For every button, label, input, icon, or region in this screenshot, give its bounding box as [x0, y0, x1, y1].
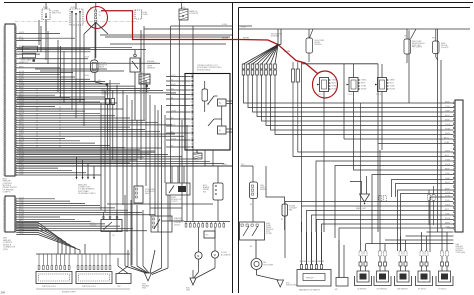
- svg-text:RD/GN: RD/GN: [390, 89, 396, 91]
- wire y166 across: [16, 165, 233, 167]
- svg-text:RD/GN: RD/GN: [19, 229, 24, 231]
- svg-text:RD/GN: RD/GN: [19, 85, 24, 87]
- svg-text:BN/BU: BN/BU: [19, 142, 24, 144]
- svg-text:BN/RD: BN/RD: [171, 84, 177, 86]
- pin rows above ignition boxes: [38, 254, 40, 266]
- svg-text:RD/BU: RD/BU: [445, 133, 450, 135]
- svg-text:BN/BU: BN/BU: [19, 200, 24, 202]
- svg-text:(S16/3): (S16/3): [174, 224, 180, 226]
- red highlight circle on connector: [87, 7, 108, 29]
- component hot film MAF inline (B2/5): [306, 38, 313, 53]
- svg-text:BN/BU: BN/BU: [19, 114, 24, 116]
- wires above shift interlock: [171, 166, 173, 183]
- svg-text:RT KNOCK: RT KNOCK: [418, 289, 427, 291]
- component relay K2 upper: [92, 220, 94, 222]
- component resistor pair: [292, 69, 295, 82]
- highlighted pin column S4/1: [95, 10, 97, 12]
- component M motor 2: [211, 251, 218, 258]
- svg-text:SENSOR: SENSOR: [260, 189, 268, 191]
- svg-text:BU/GY: BU/GY: [445, 115, 450, 117]
- right panel left border: [238, 8, 240, 294]
- component G3/2 fuel level sender: [250, 182, 258, 199]
- svg-text:OF ENGINE COMPT): OF ENGINE COMPT): [78, 193, 96, 195]
- component M motor 1: [195, 252, 202, 259]
- svg-text:FUEL PUMP: FUEL PUMP: [412, 41, 421, 43]
- wire stub into G3/2: [241, 165, 254, 167]
- svg-text:RD/GN: RD/GN: [332, 89, 338, 91]
- svg-text:FUEL PUMP: FUEL PUMP: [264, 264, 274, 266]
- right panel top border: [239, 7, 471, 9]
- component W10 ground top: [179, 9, 188, 20]
- svg-text:BU/GY: BU/GY: [19, 121, 24, 123]
- svg-text:BU/RD: BU/RD: [171, 93, 177, 95]
- svg-text:LEVEL: LEVEL: [260, 187, 265, 189]
- svg-text:BN/BU: BN/BU: [19, 169, 24, 171]
- module internal wires: [221, 106, 223, 126]
- svg-text:CMP SENSOR: CMP SENSOR: [397, 289, 409, 291]
- wires top MAF: [301, 222, 303, 232]
- svg-text:W10: W10: [356, 206, 359, 208]
- module internal switch 1: [208, 96, 214, 104]
- svg-text:SW: SW: [203, 191, 206, 193]
- svg-text:PUMP: PUMP: [143, 14, 149, 16]
- wire G3/2 to relay box: [252, 199, 254, 223]
- svg-text:IAT: IAT: [335, 288, 338, 291]
- module CC/ISC box N4/3: [185, 74, 230, 151]
- svg-text:GY/GN: GY/GN: [19, 126, 24, 128]
- svg-text:W10: W10: [140, 72, 143, 74]
- connector N3/4 section 1 (HFM-SFI control module connector): [5, 24, 15, 176]
- wires A7/3: [217, 166, 219, 183]
- ground W29 arrow: [145, 273, 152, 281]
- harness boundary dashed line 1: [36, 88, 38, 150]
- fan box tails: [243, 75, 245, 79]
- component starter lockout switch: [151, 216, 172, 232]
- svg-text:SENSOR: SENSOR: [147, 68, 156, 70]
- harness boundary dashed line 2: [59, 88, 61, 150]
- component fuse F right: [433, 41, 440, 54]
- red highlight circle injector: [313, 71, 338, 98]
- component W10 rear ground arrow: [360, 194, 370, 202]
- svg-text:YL: YL: [171, 104, 173, 106]
- svg-text:15: 15: [99, 15, 101, 17]
- red highlighted wire RD/GN: [101, 11, 239, 40]
- component relay K (overvoltage protection): [101, 220, 122, 232]
- feed stubs from top border: [45, 3, 47, 10]
- component O2 sensor ground column 1: [360, 240, 362, 251]
- svg-text:RD/BU: RD/BU: [19, 76, 24, 78]
- boxed wire label (GN/RD): [23, 46, 38, 52]
- svg-text:RD/GN: RD/GN: [84, 57, 89, 59]
- svg-text:G3/2: G3/2: [241, 164, 244, 166]
- svg-text:M: M: [214, 254, 216, 257]
- svg-text:RD/BU: RD/BU: [19, 216, 24, 218]
- svg-text:RD/GN: RD/GN: [445, 218, 450, 220]
- wire injector2 vert: [353, 64, 355, 78]
- svg-text:RD/BU: RD/BU: [19, 130, 24, 132]
- svg-text:BN/BU: BN/BU: [445, 168, 450, 170]
- svg-text:BN/BU: BN/BU: [319, 261, 324, 263]
- wires heated oxygen sensor: [266, 166, 285, 204]
- svg-text:K1: K1: [90, 221, 92, 223]
- svg-text:(CONT): (CONT): [266, 233, 272, 235]
- module pin column with arrows: [191, 74, 193, 150]
- svg-text:MODULE (N4/3): MODULE (N4/3): [197, 69, 211, 71]
- svg-text:MODULE: MODULE: [90, 225, 96, 227]
- svg-text:BU/GY: BU/GY: [19, 149, 24, 151]
- wire bundle 1 extras: [344, 138, 453, 140]
- component fuel injector Y62y1 (highlighted): [320, 78, 329, 92]
- ground W29 wires converge: [124, 195, 126, 266]
- svg-text:GY/RD: GY/RD: [171, 138, 177, 140]
- component K40 relay module right: [404, 39, 411, 54]
- ground W12 arrow: [277, 280, 284, 287]
- svg-text:COMPT): COMPT): [3, 191, 11, 193]
- vertical wires mid right: [408, 30, 410, 103]
- component Y1 capsule valve: [91, 60, 99, 73]
- svg-text:BK/YL: BK/YL: [19, 37, 24, 39]
- node square S62: [106, 83, 108, 85]
- connector ECM strip right edge: [455, 100, 463, 232]
- svg-text:CONN (X35): CONN (X35): [456, 252, 466, 254]
- svg-text:RD/BU: RD/BU: [445, 200, 450, 202]
- red wire right panel: [239, 40, 318, 74]
- svg-text:IGNITION COILS: IGNITION COILS: [42, 286, 57, 288]
- module shift interlock box: [166, 183, 190, 195]
- svg-text:GN/RD: GN/RD: [24, 49, 31, 51]
- svg-text:VALVE: VALVE: [145, 192, 151, 195]
- svg-text:GN/YL: GN/YL: [171, 75, 176, 77]
- svg-text:FUEL: FUEL: [260, 185, 264, 187]
- module internal box A1: [218, 99, 227, 106]
- component W10 engine ground (below module): [193, 153, 202, 159]
- svg-text:ELECTRO-: ELECTRO-: [99, 63, 108, 65]
- svg-text:BK/YL: BK/YL: [445, 155, 450, 157]
- long wire col1: [360, 103, 362, 240]
- svg-text:BU/GY: BU/GY: [445, 182, 450, 184]
- component ground column 2: [379, 150, 381, 251]
- svg-text:RD/GN: RD/GN: [361, 89, 367, 91]
- svg-text:FRT COMPT): FRT COMPT): [412, 47, 423, 49]
- fan drop wires turning right to ECM strip: [244, 79, 454, 103]
- CO adjustment connector arrows: [76, 157, 78, 177]
- svg-text:(TRUNK GND): (TRUNK GND): [286, 285, 297, 287]
- svg-text:GY/GN: GY/GN: [445, 124, 450, 126]
- svg-text:294: 294: [1, 291, 6, 295]
- svg-text:BK/YL: BK/YL: [19, 135, 24, 137]
- svg-text:BU/GY: BU/GY: [19, 94, 24, 96]
- svg-text:RD/GN: RD/GN: [19, 167, 24, 169]
- vertical wire trunks left panel: [38, 20, 40, 45]
- svg-text:GN/RD: GN/RD: [390, 80, 396, 82]
- wire pump to ground: [256, 270, 258, 276]
- svg-text:M: M: [197, 255, 199, 258]
- component B4 pressure sensor: [134, 186, 143, 203]
- svg-text:K-GN: K-GN: [222, 24, 227, 26]
- svg-text:W12: W12: [286, 283, 290, 285]
- horizontal wire runs left panel: [100, 34, 232, 36]
- dashed connector pair col4 feed: [428, 195, 431, 201]
- component fuel pump relay box: [240, 222, 265, 240]
- svg-text:BK/YL: BK/YL: [19, 224, 24, 226]
- svg-text:GN/RD: GN/RD: [361, 80, 367, 82]
- svg-text:IGNITION COILS: IGNITION COILS: [82, 286, 97, 288]
- svg-text:CYL 2: CYL 2: [348, 94, 353, 96]
- svg-text:RD/YL: RD/YL: [171, 124, 176, 126]
- svg-text:HFM-SFI: HFM-SFI: [306, 277, 314, 279]
- pin row below bus: [185, 222, 187, 224]
- svg-text:BN/BU: BN/BU: [19, 87, 24, 89]
- wire bundle 2 to ECM strip: [298, 130, 454, 152]
- component S29/2 fuse (dashed): [70, 9, 83, 25]
- svg-text:K-GN: K-GN: [222, 164, 227, 166]
- wire y29 left segment: [144, 28, 233, 30]
- component fuel injector Y62y2: [349, 78, 358, 92]
- svg-text:MODULE: MODULE: [315, 44, 323, 46]
- wires ECM strip to ground columns: [447, 227, 453, 229]
- svg-text:GND: GND: [142, 288, 147, 290]
- svg-text:S29/2: S29/2: [71, 7, 76, 9]
- svg-text:BN/BU: BN/BU: [445, 101, 450, 103]
- wire injector3 vert: [381, 64, 383, 78]
- svg-text:BK/YL: BK/YL: [390, 83, 395, 85]
- bracket under boxes: [36, 288, 130, 290]
- ground W11 arrow (motors): [190, 278, 196, 285]
- svg-text:CIRCUIT: CIRCUIT: [21, 62, 30, 64]
- wire relay to pump: [255, 240, 257, 258]
- svg-text:30: 30: [99, 12, 101, 14]
- module ignition coil box 2: [76, 272, 112, 284]
- svg-text:ENGINE: ENGINE: [289, 206, 295, 208]
- module ignition coil box 1: [36, 272, 72, 284]
- svg-text:CYL 1: CYL 1: [318, 94, 323, 96]
- svg-text:S16/1: S16/1: [43, 7, 48, 9]
- module internal coil: [202, 89, 208, 101]
- svg-text:BN/BU: BN/BU: [445, 222, 450, 224]
- module input stub wires: [166, 76, 191, 78]
- svg-text:RD/GN: RD/GN: [19, 139, 24, 141]
- component ground column 4: [421, 232, 423, 251]
- svg-text:RD/GN: RD/GN: [284, 51, 290, 53]
- fanout diagonals from connector: [84, 22, 96, 34]
- wire bundle from connector section 2: [16, 198, 55, 200]
- left panel right border: [232, 3, 234, 294]
- vertical drops to bus: [57, 237, 59, 254]
- wires into MAF sensor: [301, 232, 303, 265]
- page top border: [4, 2, 473, 4]
- svg-text:MODULE: MODULE: [102, 94, 110, 96]
- svg-text:BK/YL: BK/YL: [332, 83, 337, 85]
- bus wire bottom center: [184, 221, 230, 223]
- component A7/3 module: [213, 183, 223, 200]
- svg-text:CKP SENSOR: CKP SENSOR: [377, 289, 388, 291]
- svg-text:GY/GN: GY/GN: [19, 71, 24, 73]
- wire injector1 down: [323, 92, 325, 233]
- component fuel injector Y62y3: [378, 78, 387, 92]
- component ground column 3: [400, 236, 402, 251]
- wire y26 stub right panel: [239, 25, 252, 27]
- svg-text:ACTUATOR: ACTUATOR: [221, 253, 231, 256]
- fan wires from apex: [244, 45, 279, 65]
- bottom bus wire left: [36, 253, 130, 255]
- component B11/4 coolant sensor: [130, 58, 140, 72]
- wire below connector: [95, 30, 97, 58]
- svg-text:(CONT): (CONT): [171, 201, 178, 203]
- svg-text:O2 SENSOR: O2 SENSOR: [357, 289, 367, 291]
- svg-text:ENGINE COMPT: ENGINE COMPT: [62, 292, 77, 294]
- wire y26 interior lighting feed: [171, 25, 233, 27]
- module internal box M16: [218, 126, 227, 134]
- svg-text:GN/RD: GN/RD: [332, 80, 338, 82]
- small box below pin row: [204, 231, 215, 238]
- svg-text:S27: S27: [140, 89, 143, 91]
- dash-dot compartment boundary: [15, 21, 138, 23]
- svg-text:BK: BK: [281, 219, 283, 221]
- svg-text:LT KNOCK: LT KNOCK: [439, 289, 448, 291]
- svg-text:BN/BU: BN/BU: [19, 231, 24, 233]
- component W10 engine ground hatched: [139, 74, 150, 84]
- svg-text:BK/GN: BK/GN: [84, 75, 89, 77]
- svg-text:S62: S62: [98, 80, 101, 82]
- wire bundle from connector section 1: [16, 33, 60, 35]
- svg-text:RD/GN: RD/GN: [19, 197, 24, 199]
- connector boxes below relay label: [106, 99, 110, 105]
- svg-text:BK: BK: [250, 204, 252, 206]
- svg-text:OF ENGINE): OF ENGINE): [140, 92, 149, 94]
- dashed connector pair mid: [379, 196, 382, 202]
- svg-text:(LEFT FRONT: (LEFT FRONT: [140, 90, 150, 92]
- module MAF sensor box: [297, 270, 331, 287]
- component heated oxygen sensor coil: [282, 204, 288, 216]
- node S27 with label: [146, 85, 148, 87]
- svg-text:RD/BU: RD/BU: [19, 158, 24, 160]
- svg-text:RD/GN: RD/GN: [445, 164, 450, 166]
- component intake temp sensor: [336, 278, 348, 287]
- svg-text:RD/GN: RD/GN: [222, 37, 229, 39]
- component ground column 5: [441, 228, 443, 251]
- wire y64 feed: [302, 63, 378, 65]
- wire y29 right panel: [239, 28, 470, 30]
- fan connector boxes row: [242, 64, 245, 69]
- svg-text:GY/BK: GY/BK: [444, 142, 450, 144]
- wire vertical 437.6: [437, 29, 439, 232]
- svg-text:RT FRONT: RT FRONT: [190, 13, 200, 15]
- svg-text:BK/YL: BK/YL: [304, 261, 309, 263]
- svg-text:RD/GN: RD/GN: [243, 37, 249, 39]
- wire mid vertical 301: [301, 63, 303, 233]
- boxed wire label 2: [23, 53, 36, 58]
- module camshaft box 3: [116, 274, 131, 284]
- svg-text:(X26): (X26): [3, 249, 8, 251]
- svg-text:GY/GN: GY/GN: [19, 211, 24, 213]
- svg-text:(K40) (LEFT: (K40) (LEFT: [412, 45, 421, 47]
- svg-text:RD/GN: RD/GN: [19, 112, 24, 114]
- svg-text:K-GN: K-GN: [241, 27, 246, 29]
- svg-text:MASS AIR FLOW SENSOR: MASS AIR FLOW SENSOR: [299, 289, 321, 292]
- wire from S16/1 down: [45, 20, 47, 32]
- svg-text:GY/GN: GY/GN: [445, 192, 450, 194]
- svg-text:BK/YL: BK/YL: [361, 83, 366, 85]
- svg-text:W10: W10: [195, 161, 199, 163]
- svg-text:W10: W10: [181, 7, 185, 9]
- wires below module: [196, 150, 198, 153]
- wire through capsule: [94, 73, 96, 83]
- svg-text:F34: F34: [432, 38, 435, 40]
- svg-text:WT: WT: [171, 145, 174, 147]
- connector N3/4 section 2: [5, 196, 15, 232]
- component S4/5 connector (dashed): [135, 10, 142, 19]
- svg-text:BK/YL: BK/YL: [445, 209, 450, 211]
- component S27/3 kickdown switch (dashed): [42, 9, 50, 20]
- svg-text:THROTTLE: THROTTLE: [52, 13, 62, 15]
- svg-text:BK/YL: BK/YL: [444, 137, 449, 139]
- svg-text:GND: GND: [186, 290, 191, 292]
- module internal switch 2: [208, 119, 214, 126]
- wire fan from connector bottom: [16, 223, 58, 238]
- component M3 fuel pump: [251, 259, 262, 270]
- svg-text:BU/GY: BU/GY: [19, 207, 24, 209]
